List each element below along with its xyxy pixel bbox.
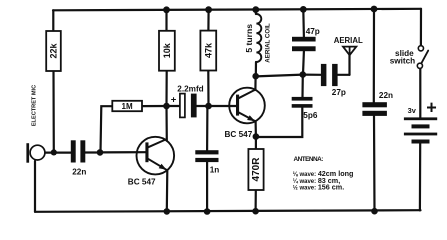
svg-text:22n: 22n — [379, 91, 393, 100]
svg-text:10k: 10k — [162, 42, 172, 58]
svg-text:470R: 470R — [251, 157, 262, 182]
svg-text:27p: 27p — [332, 88, 346, 97]
svg-text:AERIAL: AERIAL — [334, 36, 363, 45]
svg-text:switch: switch — [390, 57, 415, 66]
svg-text:1M: 1M — [122, 102, 133, 111]
svg-text:BC 547: BC 547 — [225, 130, 253, 139]
svg-text:BC 547: BC 547 — [128, 177, 156, 186]
svg-text:AERIAL COIL: AERIAL COIL — [265, 23, 272, 63]
svg-text:2.2mfd: 2.2mfd — [177, 84, 203, 93]
svg-text:47p: 47p — [306, 27, 320, 36]
svg-text:22k: 22k — [49, 43, 59, 59]
svg-text:47k: 47k — [203, 42, 213, 58]
svg-text:3v: 3v — [408, 106, 417, 115]
svg-text:22n: 22n — [72, 168, 86, 177]
svg-text:1n: 1n — [210, 165, 220, 174]
svg-text:5p6: 5p6 — [303, 111, 318, 120]
svg-text:ELECTRET MIC: ELECTRET MIC — [31, 85, 37, 126]
svg-text:5 turns: 5 turns — [244, 24, 254, 53]
svg-text:+: + — [171, 94, 177, 105]
svg-text:ANTENNA:: ANTENNA: — [294, 156, 324, 163]
svg-text:+: + — [426, 97, 437, 117]
